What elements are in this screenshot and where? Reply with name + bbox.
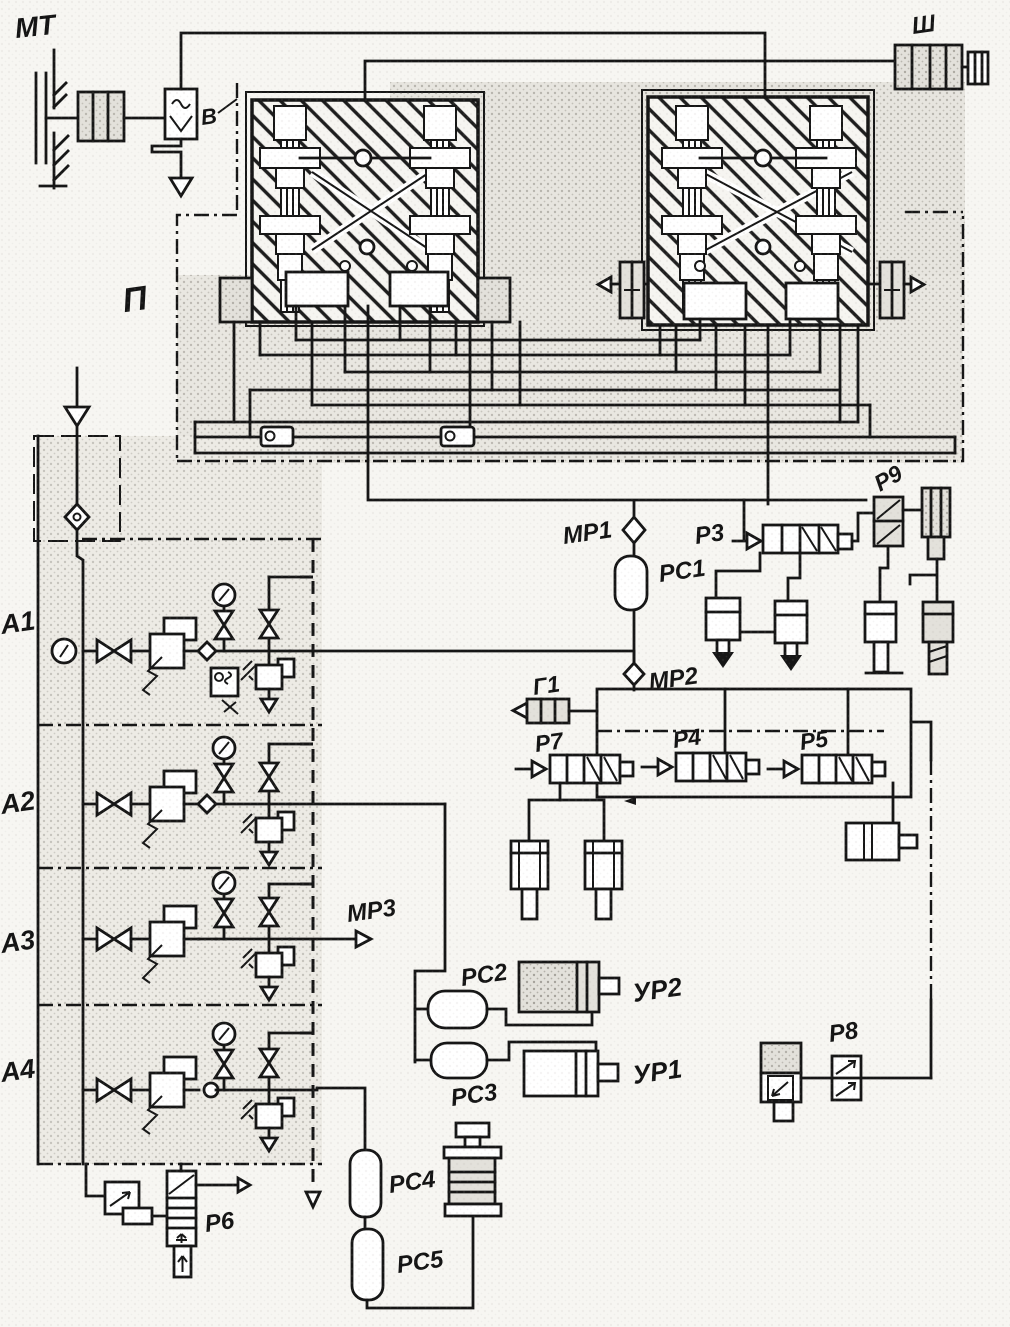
wire RS2 to UR2 — [487, 1009, 592, 1025]
left mechanism left ear block — [220, 278, 252, 322]
А4 gauge needle valve — [215, 1050, 233, 1078]
valve P8 — [832, 1056, 861, 1100]
А1 pressure regulator — [164, 618, 196, 640]
right brake mechanism hatched body — [648, 97, 868, 325]
wire bundle below mechanisms — [195, 306, 955, 504]
svg-text:Р5: Р5 — [798, 725, 831, 755]
svg-text:Р6: Р6 — [203, 1207, 236, 1238]
wire pressure switch to P8 — [801, 1077, 832, 1080]
А4 junction circle — [204, 1083, 218, 1097]
right mechanism port circle — [755, 150, 771, 166]
row separator A1 top — [82, 538, 322, 540]
cylinder Sh — [895, 45, 988, 89]
cylinder UR2 — [519, 962, 619, 1012]
valve P4 — [642, 753, 759, 781]
row separator A2/A3 — [38, 867, 322, 869]
left slack adjuster of right mechanism — [598, 262, 648, 318]
svg-text:А4: А4 — [0, 1053, 37, 1088]
А1 charging needle valve — [268, 577, 271, 665]
wire P3 outlets to wheel cylinders — [716, 553, 937, 632]
restrictor on line 2 — [441, 427, 474, 446]
wire A4 to RS4 — [290, 1088, 365, 1150]
left mechanism lower port circle — [360, 240, 374, 254]
wire P9 to cylinder — [880, 510, 922, 568]
brake cylinder left 1 — [511, 841, 548, 919]
accumulator RS2 — [415, 1008, 428, 1011]
А2 gauge needle valve — [215, 764, 233, 792]
А2 pressure regulator — [164, 771, 196, 793]
accumulator RS1 — [633, 543, 636, 556]
А1 junction diamond — [198, 642, 216, 660]
frame left edge — [37, 436, 40, 1164]
left brake mechanism housing outline — [246, 92, 484, 326]
right mechanism crossover channels — [702, 172, 852, 252]
manifold box — [597, 689, 911, 797]
supply arrow into frame — [76, 368, 79, 407]
А2 shut-off valve — [83, 803, 97, 806]
wire master cylinder to valve B — [124, 117, 165, 120]
right mechanism feed gallery — [700, 157, 826, 160]
wire RS1 to MR2 — [633, 610, 636, 664]
brake cylinder left 2 — [585, 841, 622, 919]
wheel cylinder 3 — [865, 602, 902, 673]
А3 shut-off valve — [83, 938, 97, 941]
left mechanism spool right — [410, 106, 470, 312]
А2 safety valve — [278, 812, 294, 830]
svg-text:А1: А1 — [0, 605, 37, 640]
valve P6 — [167, 1171, 196, 1277]
А4 shut-off valve — [83, 1089, 97, 1092]
vent arrow under valve B — [170, 178, 192, 196]
wire filter to distribution pipe — [77, 530, 83, 1164]
master cylinder stack — [78, 92, 124, 141]
wire MT to master cylinder — [46, 117, 78, 120]
wire manifold to P8 riser — [911, 722, 931, 1078]
valve P9 — [874, 497, 903, 546]
accumulator RS5 — [352, 1229, 383, 1300]
wire G1 to manifold — [569, 710, 597, 713]
wire feed to P3 — [733, 500, 747, 541]
А4 safety valve — [278, 1098, 294, 1116]
А1 shut-off valve — [83, 650, 97, 653]
dashed pilot border — [312, 539, 315, 1190]
wire cylinder Sh to left mechanism port — [365, 61, 899, 150]
wheel cylinder 4 — [923, 602, 953, 674]
А4 gauge — [223, 1046, 226, 1090]
svg-text:А3: А3 — [0, 924, 37, 959]
svg-text:Р8: Р8 — [827, 1017, 860, 1048]
left brake mechanism hatched body — [252, 100, 478, 322]
wire P8 to manifold riser — [861, 1077, 931, 1080]
node MR2 — [624, 663, 644, 685]
А1 safety valve — [278, 659, 294, 677]
А2 charging needle valve — [268, 744, 271, 818]
wire main line to MR1 and P3 — [368, 390, 866, 518]
wire P6 outlet arrow — [196, 1184, 238, 1187]
left mechanism right ear block — [478, 278, 510, 322]
wire valve B to right mechanism port — [181, 33, 765, 150]
frame bottom dash-dot — [38, 1163, 322, 1165]
wire pilot valve to P6 — [152, 1215, 167, 1218]
valve B — [165, 89, 197, 139]
wire valve B vent loop — [152, 139, 181, 178]
left mechanism spool left — [260, 106, 320, 312]
wire P5 to right brake cylinder — [892, 783, 895, 823]
accumulator RS3 — [415, 1059, 431, 1062]
valve P5 — [768, 755, 885, 783]
wire RS3 to UR1 — [487, 1042, 596, 1060]
wheel cylinder 1 — [706, 598, 740, 668]
svg-text:А2: А2 — [0, 785, 37, 820]
А4 charging needle valve — [268, 1033, 271, 1104]
right mechanism lower port circle — [756, 240, 770, 254]
А1 gauge needle valve — [215, 611, 233, 639]
svg-text:Р3: Р3 — [693, 519, 726, 550]
row separator A3/A4 — [38, 1004, 322, 1006]
А2 junction diamond — [198, 795, 216, 813]
row separator A1/A2 — [38, 724, 322, 726]
wire RS4 to RS5 — [364, 1217, 367, 1229]
bellows unit — [444, 1123, 501, 1216]
right slack adjuster of right mechanism — [868, 262, 924, 318]
left mechanism feed gallery — [300, 157, 430, 160]
manifold pilot dash line — [597, 730, 884, 732]
cylinder at P9 — [922, 488, 950, 559]
accumulator RS4 — [350, 1150, 381, 1217]
А3 safety valve — [278, 947, 294, 965]
wire A2 to RS2 branch — [290, 803, 445, 806]
pilot arrow on manifold line — [624, 797, 636, 805]
right brake mechanism housing outline — [642, 90, 874, 330]
wire frame to pilot valve — [86, 1164, 105, 1196]
wire P7 outlets to brake cylinders — [529, 783, 604, 841]
right mechanism spool left — [662, 106, 722, 312]
svg-text:Р7: Р7 — [533, 727, 566, 757]
wire A2 branch down to RS2 RS3 — [415, 804, 445, 1062]
A1 drain unit — [211, 668, 238, 696]
А3 pressure regulator — [164, 906, 196, 928]
pilot valve block — [105, 1182, 152, 1224]
right mechanism spool right — [796, 106, 856, 312]
left mechanism bottom pads — [286, 272, 348, 306]
А4 pressure regulator — [164, 1057, 196, 1079]
left mechanism crossover channels — [312, 172, 430, 250]
pressure switch at P8 — [761, 1043, 801, 1121]
А3 gauge needle valve — [215, 899, 233, 927]
valve P7 — [516, 755, 633, 783]
А2 gauge — [223, 760, 226, 804]
svg-text:Г1: Г1 — [531, 670, 561, 699]
brake cylinder right — [846, 823, 917, 860]
wire P3 to P9 — [852, 513, 874, 541]
А1 gauge — [223, 607, 226, 651]
wire A1 to MR2 — [290, 651, 634, 663]
ground MT wall anchor — [36, 50, 68, 188]
svg-text:Р4: Р4 — [671, 723, 703, 753]
inlet box with filter — [34, 436, 120, 541]
svg-text:МТ: МТ — [13, 9, 59, 44]
filter check diamond — [65, 504, 89, 530]
svg-text:Ш: Ш — [910, 10, 938, 40]
restrictor on line 1 — [261, 427, 293, 446]
right mechanism bottom pads — [684, 283, 746, 319]
left mechanism port circle — [355, 150, 371, 166]
А3 charging needle valve — [268, 884, 271, 953]
node P frame dash-dot boundary — [177, 83, 963, 463]
valve P3 — [747, 525, 852, 553]
wire P6 top stem — [180, 1164, 183, 1171]
A1 left gauge — [52, 639, 76, 663]
wheel cylinder 2 — [775, 601, 807, 671]
wire RS5 to bellows — [367, 1216, 473, 1308]
А3 gauge — [223, 895, 226, 939]
silencer G1 — [513, 699, 569, 723]
cylinder UR1 — [524, 1051, 618, 1096]
